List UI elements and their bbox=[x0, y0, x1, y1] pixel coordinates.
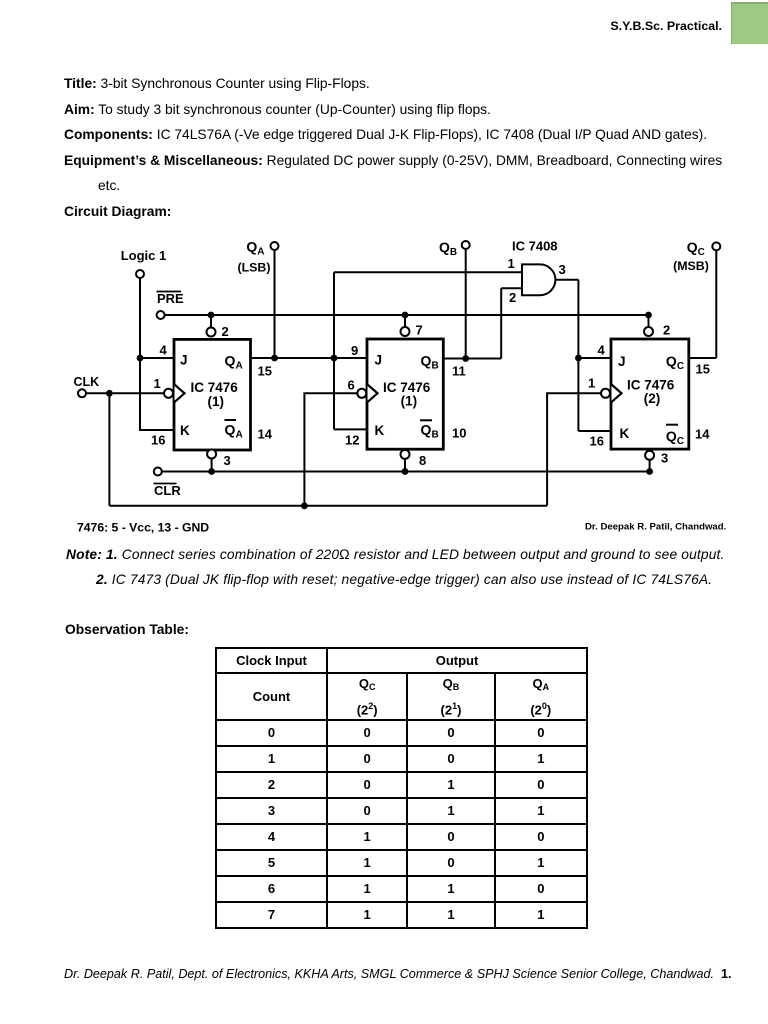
wire: QA output row U1 to U2 J pin 9 bbox=[251, 357, 368, 359]
svg-text:14: 14 bbox=[695, 427, 710, 442]
pin bubble U3 clock pin 1 bbox=[601, 389, 610, 398]
flip-flop U3 IC 7476 (2) body bbox=[611, 339, 689, 449]
junction: PRE at U2 bbox=[402, 312, 409, 319]
wire: U3 pin 3 stem to CLR rail bbox=[649, 460, 651, 472]
wire: QB output row to AND gate pin 2 bbox=[443, 288, 522, 358]
svg-text:K: K bbox=[620, 426, 630, 441]
AND gate U4 IC 7408 body bbox=[522, 264, 555, 295]
footer bbox=[64, 967, 732, 982]
label: U3 QC-bar output bbox=[666, 424, 678, 426]
flip-flop U1 IC 7476 (1) body bbox=[174, 339, 251, 450]
svg-text:A: A bbox=[236, 361, 243, 372]
wire: U2 pin 8 stem to CLR rail bbox=[404, 459, 406, 472]
wire: PRE stem to U2 pin 7 bbox=[404, 315, 406, 327]
svg-text:(MSB): (MSB) bbox=[673, 259, 709, 273]
pin bubble U3 PRE pin 2 bbox=[644, 327, 653, 336]
junction: CLR at U3 bbox=[646, 468, 653, 475]
junction: CLK split bbox=[106, 390, 113, 397]
document text bbox=[64, 76, 370, 91]
junction: QB riser on QB row bbox=[462, 355, 469, 362]
label: U2 QB-bar output bbox=[420, 419, 432, 421]
svg-text:K: K bbox=[180, 423, 190, 438]
svg-text:4: 4 bbox=[598, 343, 606, 358]
pin bubble U1 PRE pin 2 bbox=[207, 328, 216, 337]
clock edge triangle U3 bbox=[612, 385, 622, 403]
CIRCUIT DIAGRAM SVG bbox=[0, 228, 768, 540]
pin bubble U2 CLR pin 8 bbox=[401, 450, 410, 459]
svg-text:CLK: CLK bbox=[74, 375, 100, 389]
pin bubble U1 clock pin 1 bbox=[164, 389, 173, 398]
svg-text:CLR: CLR bbox=[154, 483, 181, 498]
node Logic 1 terminal bbox=[136, 270, 144, 278]
svg-text:(1): (1) bbox=[208, 394, 225, 409]
svg-text:Dr. Deepak R. Patil, Chandwad.: Dr. Deepak R. Patil, Chandwad. bbox=[585, 522, 726, 533]
junction: AND output at U3 J row bbox=[575, 355, 582, 362]
svg-text:11: 11 bbox=[452, 364, 466, 379]
wire: Logic 1 branch to J pin 4 of U1 bbox=[140, 357, 174, 359]
svg-text:15: 15 bbox=[258, 364, 272, 379]
svg-text:Q: Q bbox=[439, 239, 450, 255]
svg-text:Q: Q bbox=[225, 422, 236, 438]
svg-text:10: 10 bbox=[452, 426, 466, 441]
node QB terminal bbox=[462, 241, 470, 249]
svg-text:3: 3 bbox=[661, 451, 668, 466]
svg-text:J: J bbox=[180, 353, 188, 368]
green corner square bbox=[731, 2, 768, 44]
svg-text:3: 3 bbox=[559, 262, 566, 277]
node QA terminal bbox=[271, 242, 279, 250]
svg-text:15: 15 bbox=[696, 362, 710, 377]
svg-text:IC 7408: IC 7408 bbox=[512, 239, 558, 254]
junction: clock rail at U2 riser bbox=[301, 502, 308, 509]
junction: PRE at U1 bbox=[208, 312, 215, 319]
svg-text:(2): (2) bbox=[644, 391, 661, 406]
wire: clock rail riser to U3 clock pin 1 bbox=[547, 393, 601, 506]
svg-text:Logic 1: Logic 1 bbox=[121, 248, 167, 263]
svg-text:K: K bbox=[375, 423, 385, 438]
svg-text:C: C bbox=[677, 361, 684, 372]
svg-text:14: 14 bbox=[258, 427, 273, 442]
header right text bbox=[610, 19, 722, 33]
wire: clock rail riser to U2 clock pin 6 bbox=[304, 393, 357, 506]
wire: CLR rail bbox=[162, 471, 650, 473]
svg-text:7: 7 bbox=[416, 323, 423, 338]
wire: U1 pin 3 stem to CLR rail bbox=[211, 459, 213, 472]
clock edge triangle U2 bbox=[368, 385, 378, 403]
svg-text:Q: Q bbox=[421, 422, 432, 438]
flip-flop U2 IC 7476 (1) body bbox=[367, 339, 443, 449]
note text bbox=[66, 547, 725, 562]
node CLK terminal bbox=[78, 389, 86, 397]
svg-text:J: J bbox=[375, 353, 383, 368]
svg-text:B: B bbox=[432, 361, 439, 372]
svg-text:16: 16 bbox=[590, 434, 604, 449]
node CLR terminal bbox=[154, 468, 162, 476]
svg-text:(1): (1) bbox=[401, 394, 418, 409]
svg-text:4: 4 bbox=[160, 343, 168, 358]
pin bubble U2 PRE pin 7 bbox=[401, 327, 410, 336]
junction: QA branch to AND/K bbox=[331, 355, 338, 362]
svg-text:1: 1 bbox=[588, 376, 595, 391]
wire: bottom clock rail bbox=[109, 505, 547, 507]
wire: QC output row and riser to terminal bbox=[689, 250, 717, 358]
svg-text:3: 3 bbox=[224, 453, 231, 468]
svg-text:1: 1 bbox=[154, 376, 161, 391]
wire: CLK riser down to clock rail bbox=[108, 393, 110, 506]
pin bubble U1 CLR pin 3 bbox=[207, 450, 216, 459]
pin bubble U3 CLR pin 3 bbox=[645, 451, 654, 460]
wire: PRE stem to U1 pin 2 bbox=[210, 315, 212, 328]
wire: CLK to U1 clock pin 1 bbox=[86, 392, 164, 394]
junction: CLR at U2 bbox=[402, 468, 409, 475]
svg-text:B: B bbox=[432, 430, 439, 441]
svg-text:16: 16 bbox=[151, 433, 165, 448]
svg-text:C: C bbox=[698, 247, 705, 258]
wire: PRE stem to U3 pin 2 bbox=[648, 315, 650, 327]
svg-text:IC 7476: IC 7476 bbox=[191, 380, 239, 395]
svg-text:7476: 5 - Vcc, 13 - GND: 7476: 5 - Vcc, 13 - GND bbox=[77, 521, 209, 535]
wire: QA riser to terminal bbox=[274, 250, 276, 358]
svg-text:2: 2 bbox=[663, 323, 670, 338]
svg-text:C: C bbox=[677, 436, 684, 447]
svg-text:Q: Q bbox=[687, 239, 698, 255]
svg-text:Q: Q bbox=[666, 428, 677, 444]
label: U1 QA-bar output bbox=[225, 419, 237, 421]
junction: Logic 1 at U1 J row bbox=[137, 355, 144, 362]
svg-text:PRE: PRE bbox=[157, 291, 184, 306]
svg-text:8: 8 bbox=[419, 453, 426, 468]
junction: PRE at U3 bbox=[645, 312, 652, 319]
junction: CLR at U1 bbox=[208, 468, 215, 475]
wire: Logic 1 vertical down to K row of U1 bbox=[140, 278, 174, 430]
svg-text:6: 6 bbox=[348, 378, 355, 393]
pin bubble U2 clock pin 6 bbox=[357, 389, 366, 398]
svg-text:A: A bbox=[257, 247, 264, 258]
svg-text:Q: Q bbox=[246, 238, 257, 254]
svg-text:2: 2 bbox=[222, 324, 229, 339]
node QC terminal bbox=[712, 242, 720, 250]
svg-text:B: B bbox=[450, 247, 457, 258]
node PRE terminal bbox=[157, 311, 165, 319]
svg-text:Q: Q bbox=[666, 353, 677, 369]
svg-text:Q: Q bbox=[225, 353, 236, 369]
svg-text:2: 2 bbox=[509, 290, 516, 305]
svg-text:1: 1 bbox=[508, 256, 515, 271]
svg-text:J: J bbox=[618, 354, 626, 369]
observation table bbox=[215, 647, 588, 929]
svg-text:A: A bbox=[236, 430, 243, 441]
svg-text:12: 12 bbox=[345, 433, 359, 448]
wire: AND gate output to U3 J pin 4 and K pin 16 bbox=[555, 280, 611, 431]
svg-text:9: 9 bbox=[351, 343, 358, 358]
wire: QA node to AND gate pin 1 and U2 K pin 12 bbox=[334, 272, 522, 429]
svg-text:Q: Q bbox=[421, 353, 432, 369]
wire: QB riser to terminal bbox=[465, 249, 467, 359]
clock edge triangle U1 bbox=[175, 385, 185, 403]
svg-text:(LSB): (LSB) bbox=[237, 261, 270, 275]
junction: QA riser on QA row bbox=[271, 355, 278, 362]
wire: PRE rail bbox=[165, 314, 649, 316]
